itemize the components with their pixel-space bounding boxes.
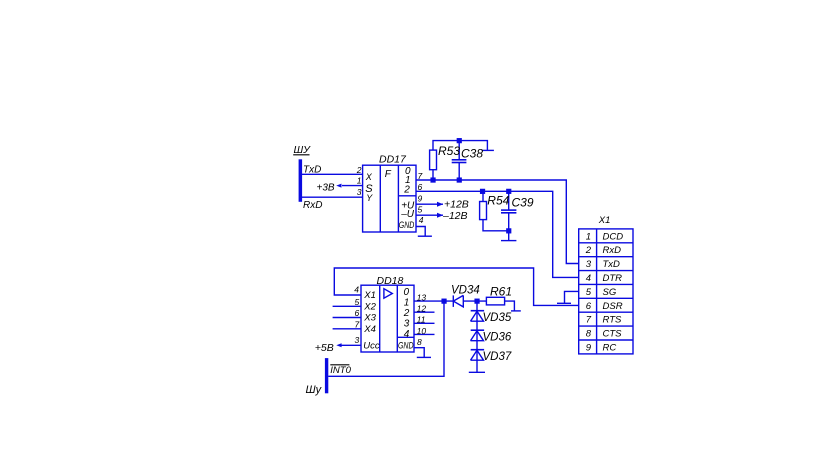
- svg-text:DSR: DSR: [603, 301, 623, 312]
- svg-text:2: 2: [403, 308, 410, 319]
- svg-text:3: 3: [355, 335, 360, 345]
- svg-text:DD18: DD18: [377, 275, 404, 287]
- svg-text:1: 1: [586, 231, 591, 242]
- svg-text:10: 10: [417, 326, 427, 336]
- svg-text:4: 4: [419, 215, 424, 225]
- svg-text:–U: –U: [400, 209, 415, 220]
- svg-text:5: 5: [418, 205, 423, 215]
- svg-text:9: 9: [418, 194, 423, 204]
- svg-text:7: 7: [355, 319, 360, 329]
- svg-text:6: 6: [586, 301, 592, 312]
- svg-text:6: 6: [418, 182, 423, 192]
- svg-text:DTR: DTR: [603, 273, 623, 284]
- svg-text:5: 5: [586, 287, 592, 298]
- svg-text:1: 1: [357, 176, 362, 186]
- svg-text:C39: C39: [512, 195, 534, 209]
- svg-text:VD35: VD35: [483, 312, 512, 324]
- svg-text:C38: C38: [461, 146, 483, 160]
- svg-text:CTS: CTS: [603, 329, 623, 340]
- svg-text:DD17: DD17: [379, 153, 407, 165]
- svg-text:VD37: VD37: [483, 351, 512, 363]
- svg-text:+3В: +3В: [317, 182, 335, 193]
- svg-text:TxD: TxD: [303, 164, 321, 175]
- svg-text:F: F: [385, 169, 392, 180]
- svg-text:4: 4: [354, 284, 359, 294]
- svg-text:X1: X1: [598, 215, 611, 226]
- svg-text:12: 12: [417, 304, 427, 314]
- svg-text:RC: RC: [603, 343, 617, 354]
- svg-text:5: 5: [355, 297, 360, 307]
- svg-text:9: 9: [586, 343, 592, 354]
- svg-text:13: 13: [417, 293, 427, 303]
- svg-text:Ucc: Ucc: [363, 341, 380, 352]
- svg-text:VD34: VD34: [451, 284, 480, 296]
- svg-text:7: 7: [586, 315, 592, 326]
- svg-text:Y: Y: [366, 193, 373, 203]
- svg-text:3: 3: [404, 319, 410, 330]
- svg-text:11: 11: [417, 315, 426, 325]
- svg-text:DCD: DCD: [603, 231, 624, 242]
- svg-text:X: X: [365, 172, 373, 182]
- svg-text:8: 8: [586, 329, 592, 340]
- svg-text:R61: R61: [490, 285, 512, 299]
- svg-text:GND: GND: [398, 341, 414, 351]
- svg-text:2: 2: [585, 245, 592, 256]
- svg-text:R54: R54: [487, 194, 509, 208]
- svg-text:4: 4: [586, 273, 591, 284]
- svg-text:–12В: –12В: [442, 210, 468, 222]
- svg-text:VD36: VD36: [483, 331, 512, 343]
- svg-text:4: 4: [404, 329, 410, 340]
- svg-text:Шу: Шу: [306, 384, 323, 396]
- svg-text:0: 0: [404, 287, 410, 298]
- svg-text:3: 3: [586, 259, 592, 270]
- svg-text:RTS: RTS: [603, 315, 622, 326]
- svg-text:R53: R53: [438, 144, 460, 158]
- svg-text:RxD: RxD: [603, 245, 622, 256]
- svg-text:+5В: +5В: [315, 342, 334, 354]
- svg-text:INT0: INT0: [330, 365, 351, 376]
- svg-text:6: 6: [355, 308, 360, 318]
- svg-text:7: 7: [418, 171, 423, 181]
- svg-text:RxD: RxD: [303, 200, 322, 211]
- svg-text:3: 3: [357, 187, 362, 197]
- svg-text:X3: X3: [363, 313, 376, 324]
- svg-text:X1: X1: [363, 290, 376, 301]
- svg-text:X2: X2: [363, 301, 376, 312]
- svg-text:SG: SG: [603, 287, 617, 298]
- svg-text:TxD: TxD: [603, 259, 621, 270]
- svg-text:8: 8: [417, 337, 422, 347]
- svg-text:GND: GND: [399, 220, 415, 230]
- svg-text:2: 2: [356, 165, 362, 175]
- svg-text:1: 1: [404, 297, 410, 308]
- svg-text:2: 2: [403, 184, 410, 195]
- svg-text:X4: X4: [363, 324, 376, 335]
